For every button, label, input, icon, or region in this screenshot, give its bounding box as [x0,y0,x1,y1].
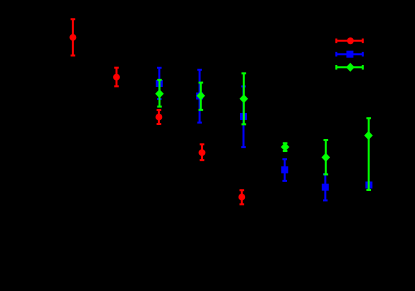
blue point 5 marker [322,184,329,191]
legend blue entry [336,51,363,58]
green series (filled diamonds with error bars) [155,73,373,190]
legend red entry [336,37,363,44]
green point 3 error bar [242,73,247,124]
green point 5 marker [322,153,331,162]
legend [336,37,363,71]
blue point 2 error bar [197,70,202,123]
green point 6 error bar [366,118,371,190]
red point 4 marker [199,149,206,156]
green point 6 marker [364,131,373,140]
green point 2 error bar [199,83,204,110]
blue point 4 error bar [282,159,287,181]
blue point 1 marker [156,80,163,87]
legend green entry [336,63,363,72]
blue point 6 error bar [368,181,370,190]
red point 5 marker [238,194,245,201]
red point 3 marker [156,114,163,121]
blue point 6 marker [365,182,372,189]
blue point 3 marker [240,113,247,120]
blue series (filled squares with error bars) [156,68,373,201]
red point 1 marker [70,34,77,41]
red point 3 error bar [157,110,162,124]
blue point 5 error bar [323,174,328,200]
green point 4 error bar [283,143,288,151]
green point 3 marker [240,94,249,103]
green point 5 error bar [324,140,329,174]
blue point 2 marker [196,93,203,100]
blue point 3 error bar [241,86,246,147]
green point 2 marker [197,91,206,100]
red series (filled circles with error bars) [70,19,246,204]
green point 1 marker [155,89,164,98]
green point 4 marker [281,143,290,152]
red point 1 error bar [71,19,76,55]
green point 1 error bar [157,80,162,107]
red point 2 error bar [114,68,119,87]
blue point 4 marker [281,166,288,173]
red point 2 marker [113,74,120,81]
blue point 1 error bar [157,68,162,99]
red point 4 error bar [200,144,205,160]
red point 5 error bar [240,190,245,204]
